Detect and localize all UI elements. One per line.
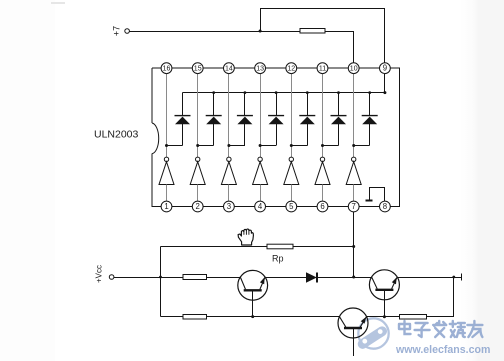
wire diode D2 jog (196, 144, 214, 147)
wire pin 9 internal lead (383, 74, 386, 95)
capacitor-free clamp diode D4 (268, 93, 284, 146)
capacitor-free clamp diode D2 (206, 93, 222, 146)
svg-text:8: 8 (383, 202, 387, 211)
wire internal cathode bus (183, 92, 385, 94)
wire Q1 base lead down (251, 292, 254, 319)
svg-text:www.elecfans.com: www.elecfans.com (395, 344, 490, 356)
resistor Rp (267, 244, 293, 263)
wire channel 6 vertical (pin 11 to input buffer) (322, 74, 324, 158)
svg-text:13: 13 (256, 66, 264, 73)
pin 15 (192, 63, 203, 74)
wire diode D5 jog (290, 144, 308, 147)
svg-text:1: 1 (164, 202, 168, 211)
wire from pin 7 (352, 212, 355, 279)
op-amp U1 ULN2003 body (152, 68, 400, 206)
wire channel 4 vertical (pin 13 to input buffer) (260, 74, 262, 158)
pin 11 (317, 63, 328, 74)
left page margin strip (0, 0, 55, 361)
ground internal (pin 8) (366, 187, 385, 201)
svg-text:ULN2003: ULN2003 (94, 129, 139, 141)
wire channel 5 vertical (pin 12 to input buffer) (291, 74, 293, 158)
label ULN2003 (94, 129, 139, 141)
svg-text:Rp: Rp (272, 254, 284, 264)
node +7 terminal (112, 26, 130, 36)
wire R3 to Q2 base node (367, 316, 400, 318)
pin 1 (161, 201, 172, 212)
wire Q3 base lead down (353, 329, 355, 356)
junction diode D4 on bus (275, 91, 278, 94)
wire channel 7 vertical (pin 10 to input buffer) (353, 74, 355, 158)
pin 7 (348, 201, 359, 212)
svg-text:14: 14 (225, 66, 233, 73)
inverter buffer 7 (346, 157, 361, 201)
wire diode D3 jog (227, 144, 245, 147)
transistor Q1 (238, 270, 268, 300)
node +Vcc terminal (95, 265, 114, 283)
svg-text:9: 9 (383, 64, 387, 73)
svg-text:3: 3 (227, 202, 231, 211)
pin 6 (317, 201, 328, 212)
inverter buffer 3 (221, 157, 236, 201)
wire diode D1 jog (165, 144, 183, 147)
wire resistor to pin 10 corner (325, 31, 354, 63)
inverter buffer 5 (284, 157, 299, 201)
watermark Chinese characters (399, 321, 482, 337)
watermark logo circle (356, 318, 389, 350)
capacitor-free clamp diode D1 (175, 93, 191, 146)
junction diode D3 on bus (244, 91, 247, 94)
svg-text:7: 7 (352, 202, 356, 211)
capacitor-free clamp diode D3 (237, 93, 253, 146)
wire top loop horizontal (260, 8, 385, 10)
wire diode D4 jog (259, 144, 277, 147)
pin 4 (255, 201, 266, 212)
wire channel 3 vertical (pin 14 to input buffer) (228, 74, 230, 158)
wire Q2 emitter to output (397, 277, 461, 279)
svg-text:2: 2 (196, 202, 200, 211)
watermark url text (395, 344, 490, 356)
pin 10 (348, 63, 359, 74)
svg-text:5: 5 (289, 202, 294, 211)
svg-text:11: 11 (319, 66, 326, 73)
wire +Vcc feed (114, 276, 183, 279)
wire diode D6 jog (321, 144, 339, 147)
pin 3 (224, 201, 235, 212)
wire +7 rail (129, 31, 300, 33)
wire drop to pin 9 (384, 8, 386, 63)
capacitor-free clamp diode D5 (299, 93, 315, 146)
inverter buffer 2 (190, 157, 205, 201)
pin 8 (380, 201, 391, 212)
wire Q2 base lead down (383, 291, 386, 318)
junction diode D7 on bus (368, 91, 371, 94)
transistor Q3 (338, 308, 368, 338)
wire top branch (161, 245, 356, 248)
junction diode D6 on bus (337, 91, 340, 94)
pin 13 (255, 63, 266, 74)
capacitor-free clamp diode D7 (362, 93, 378, 146)
resistor R2 (bottom branch) (183, 314, 207, 319)
wire channel 1 vertical (pin 16 to input buffer) (166, 74, 168, 158)
diode D1 (306, 272, 317, 282)
inverter buffer 6 (315, 157, 330, 201)
junction on +7 rail (259, 30, 262, 33)
wire right feedback drop (427, 277, 454, 317)
svg-text:6: 6 (320, 202, 324, 211)
pin 9 (380, 63, 391, 74)
wire channel 2 vertical (pin 15 to input buffer) (197, 74, 199, 158)
inverter buffer 4 (253, 157, 268, 201)
pin 12 (286, 63, 297, 74)
svg-text:10: 10 (350, 66, 358, 73)
wire D1 to Q2 (316, 277, 371, 279)
node output terminal tick (461, 274, 463, 281)
svg-text:4: 4 (258, 202, 263, 211)
junction diode D5 on bus (306, 91, 309, 94)
junction diode D2 on bus (212, 91, 215, 94)
pin 2 (192, 201, 203, 212)
right page margin strip (460, 0, 504, 361)
hand cursor icon (238, 229, 253, 245)
resistor R1 (base of Q1) (183, 275, 207, 280)
wire left bus vertical (160, 247, 162, 317)
junction output node (452, 276, 455, 279)
transistor Q2 (369, 270, 399, 300)
small top smudge (51, 2, 65, 4)
wire bottom branch (161, 316, 340, 318)
wire diode D7 jog (352, 144, 370, 147)
svg-text:12: 12 (287, 66, 295, 73)
wire riser to top loop (260, 8, 262, 31)
wire R1 to Q1 (207, 277, 241, 279)
resistor R3 (feedback) (399, 314, 426, 319)
resistor top (series with pin 10) (300, 29, 325, 34)
pin 16 (161, 63, 172, 74)
capacitor-free clamp diode D6 (331, 93, 347, 146)
inverter buffer 1 (159, 157, 174, 201)
svg-text:16: 16 (163, 66, 171, 73)
wire Q1 emitter to D1 (265, 277, 306, 279)
svg-text:+Vcc: +Vcc (95, 265, 104, 283)
svg-text:+7: +7 (112, 26, 122, 36)
pin 5 (286, 201, 297, 212)
svg-text:15: 15 (194, 66, 202, 73)
pin 14 (224, 63, 235, 74)
